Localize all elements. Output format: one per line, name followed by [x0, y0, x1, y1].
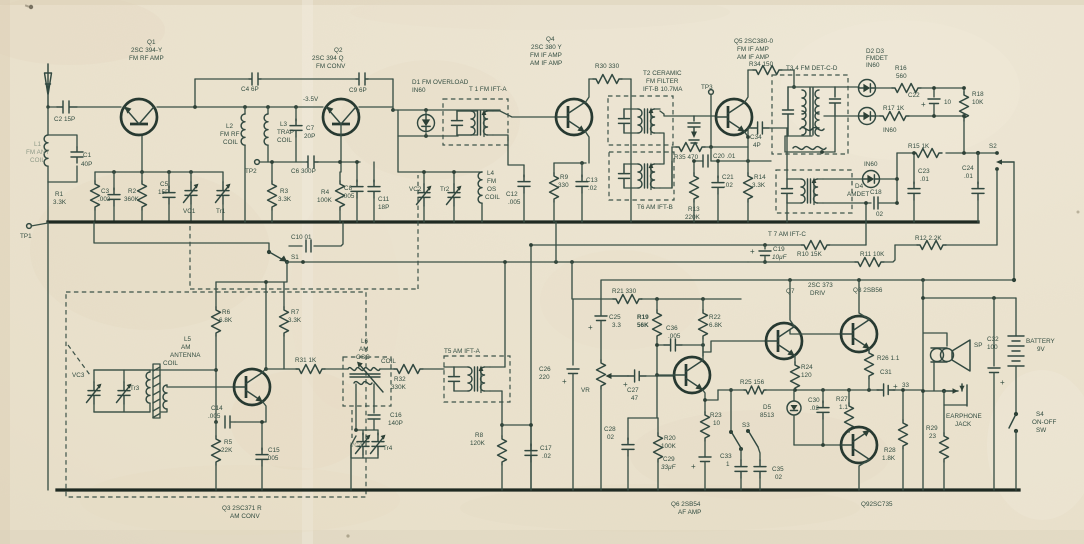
capacitor C9 — [356, 73, 368, 85]
wire Q6 collector to Q7 base — [703, 341, 766, 356]
svg-text:560: 560 — [896, 73, 907, 80]
capacitor C34 — [748, 122, 788, 137]
capacitor C15 — [256, 422, 268, 490]
transistor Q9 output (flipped) — [841, 427, 877, 463]
riser bus to rail x=556 — [555, 222, 557, 262]
resistor R3 — [268, 162, 277, 222]
T5 AM IFT-A dashed box — [444, 356, 510, 402]
wire Q2 right to riser x=393 — [359, 106, 393, 108]
svg-text:+: + — [921, 100, 926, 109]
resistor R18 — [960, 86, 969, 153]
svg-text:.005: .005 — [508, 199, 521, 206]
wire Q7 collector up — [790, 280, 795, 327]
wire TP2 rail y=162 — [260, 161, 360, 163]
svg-text:.005: .005 — [342, 193, 355, 200]
svg-text:D2 D3: D2 D3 — [866, 48, 885, 55]
svg-text:.02: .02 — [724, 182, 733, 189]
resistor R21 — [613, 295, 642, 304]
svg-text:R10 15K: R10 15K — [797, 251, 823, 258]
svg-text:8513: 8513 — [760, 412, 775, 419]
wire R35 rail y=147 — [672, 146, 748, 148]
svg-text:FM RF AMP: FM RF AMP — [129, 55, 164, 62]
resistor R8 — [498, 436, 507, 490]
svg-text:R14: R14 — [754, 174, 766, 181]
wire B- feed y=243 — [94, 222, 269, 251]
svg-text:T5 AM IFT-A: T5 AM IFT-A — [444, 348, 481, 355]
capacitor C4 — [249, 73, 261, 85]
svg-text:Q92SC735: Q92SC735 — [861, 501, 893, 508]
resistor R13 — [690, 161, 699, 222]
wire antenna to C2 — [48, 105, 57, 107]
svg-text:220K: 220K — [685, 214, 701, 221]
diode D5 bias — [787, 390, 801, 445]
svg-text:C25: C25 — [609, 314, 621, 321]
svg-text:.005: .005 — [668, 333, 681, 340]
riser rail to audio x=572 — [571, 262, 573, 299]
test point TP2 — [255, 160, 260, 165]
svg-text:D5: D5 — [763, 404, 772, 411]
svg-text:IFT-B 10.7MA: IFT-B 10.7MA — [643, 86, 683, 93]
transistor Q5 — [716, 99, 752, 135]
svg-text:R2: R2 — [128, 188, 137, 195]
capacitor C14 — [225, 416, 235, 428]
svg-text:.002: .002 — [98, 196, 111, 203]
svg-text:D1 FM OVERLOAD: D1 FM OVERLOAD — [412, 79, 469, 86]
svg-text:.02: .02 — [810, 405, 819, 412]
svg-text:2SC 373: 2SC 373 — [808, 282, 833, 289]
diode D1 FM overload — [418, 110, 435, 136]
resistor R16 — [892, 84, 964, 93]
svg-text:OS: OS — [487, 186, 496, 193]
svg-text:L1: L1 — [34, 141, 42, 148]
capacitor C27 electrolytic — [628, 370, 674, 382]
svg-text:SP: SP — [974, 342, 983, 349]
variable capacitor VC1 — [184, 172, 199, 222]
resistor R11 — [855, 245, 895, 267]
transformer T7 — [782, 178, 824, 205]
svg-text:360K: 360K — [124, 196, 140, 203]
top rail segment to R30 and T2 — [589, 78, 631, 80]
transformer T6 — [619, 163, 661, 190]
capacitor C31 electrolytic output — [877, 384, 895, 396]
wire audio B+ rail y=299 — [573, 298, 741, 300]
trimmer Tr1 — [216, 172, 231, 222]
svg-text:Q1: Q1 — [147, 39, 156, 46]
wire x=672 link — [671, 147, 673, 188]
svg-text:220: 220 — [539, 374, 550, 381]
wire T7 sec bottom to C18 — [823, 202, 871, 204]
wire AVC rail y=248 — [531, 244, 866, 246]
wire S2 lower contact to R12 rail — [996, 171, 998, 245]
svg-text:R3: R3 — [280, 188, 289, 195]
wire speaker to jack — [933, 361, 935, 391]
svg-text:10: 10 — [713, 420, 721, 427]
wire emitter node to S3 — [730, 390, 732, 432]
diode D2 FM det — [859, 80, 876, 97]
svg-text:18P: 18P — [378, 204, 389, 211]
svg-text:FM CONV: FM CONV — [316, 63, 346, 70]
wire D3 to R17 — [876, 115, 880, 117]
resistor R9 — [550, 163, 559, 222]
svg-text:AF AMP: AF AMP — [678, 509, 701, 516]
svg-text:COIL: COIL — [277, 137, 292, 144]
resistor R4 — [336, 172, 345, 222]
trimmer Tr2 — [447, 172, 462, 222]
node junction at antenna/L1 — [46, 105, 49, 108]
wire Q4 emitter down to R9/C13 rail — [554, 131, 589, 163]
svg-text:C35: C35 — [772, 466, 784, 473]
wire left leg x=398 — [397, 110, 399, 172]
svg-text:R15 1K: R15 1K — [908, 143, 930, 150]
wire Q3 collector up — [263, 282, 267, 373]
svg-text:FM ANT: FM ANT — [26, 149, 49, 156]
svg-text:4P: 4P — [753, 142, 761, 149]
svg-text:S3: S3 — [742, 422, 750, 429]
capacitor C25 electrolytic — [595, 316, 607, 360]
wire y=107 Q1 to L2/L3/Q2 — [195, 106, 323, 108]
resistor R26 — [865, 350, 874, 390]
svg-text:.01: .01 — [964, 173, 973, 180]
wire battery top rail y=298 — [923, 297, 1016, 299]
T4 bottom wire — [785, 116, 835, 152]
svg-text:TP2: TP2 — [245, 168, 257, 175]
transistor Q8 output — [841, 316, 877, 352]
svg-text:C22: C22 — [908, 92, 920, 99]
svg-text:AM IF AMP: AM IF AMP — [530, 60, 562, 67]
resistor R7 — [280, 282, 289, 369]
wire VC2 rail y=172 — [398, 171, 482, 173]
capacitor C20 — [703, 155, 708, 167]
top rail y=79 with gaps for C4 C9 — [195, 78, 393, 80]
svg-text:Q3 2SC371 R: Q3 2SC371 R — [222, 505, 262, 512]
svg-text:COIL: COIL — [223, 139, 238, 146]
wire Q7 emitter down to R24 — [794, 356, 797, 363]
T4 lower winding s-curve — [800, 128, 824, 131]
emitter rail wire y=172 — [95, 171, 223, 173]
svg-text:C33: C33 — [720, 453, 732, 460]
transformer T3 right cap — [830, 87, 841, 116]
svg-text:R30 330: R30 330 — [595, 63, 620, 70]
wire T2 sec bottom to T6 sec top — [660, 133, 664, 164]
svg-text:R12 2.2K: R12 2.2K — [915, 235, 942, 242]
switch S1 — [267, 250, 289, 264]
resistor R34 — [748, 66, 794, 75]
svg-text:02: 02 — [775, 474, 783, 481]
ferrite antenna L5 — [94, 364, 160, 418]
test point TP3 — [709, 90, 714, 147]
svg-text:23: 23 — [929, 433, 937, 440]
svg-text:ON-OFF: ON-OFF — [1032, 419, 1057, 426]
wire Q9 emitter up — [848, 430, 850, 432]
svg-text:C18: C18 — [870, 189, 882, 196]
svg-text:33μF: 33μF — [661, 464, 677, 471]
transistor Q7 driver — [766, 323, 802, 359]
ceramic filter element — [688, 116, 700, 143]
resistor R2 — [138, 172, 147, 222]
wire C2 to Q1 — [77, 106, 121, 108]
svg-text:R31 1K: R31 1K — [295, 357, 317, 364]
svg-text:L2: L2 — [226, 123, 234, 130]
resistor R30 — [593, 75, 622, 84]
svg-text:C1: C1 — [83, 152, 92, 159]
svg-text:Q5 2SC380-0: Q5 2SC380-0 — [734, 38, 774, 45]
svg-text:20P: 20P — [304, 133, 315, 140]
svg-text:10: 10 — [944, 99, 952, 106]
svg-text:VC2: VC2 — [409, 186, 422, 193]
transistor Q4 — [556, 99, 592, 135]
wire Q6 base node — [657, 374, 674, 376]
svg-text:C4 6P: C4 6P — [241, 86, 259, 93]
svg-text:T2 CERAMIC: T2 CERAMIC — [643, 70, 682, 77]
wire Q3 emitter down — [235, 402, 266, 423]
volume control VR — [597, 360, 629, 490]
resistor R31 — [296, 365, 325, 374]
transformer L6 interior — [343, 362, 391, 406]
junction dots VC2 rail — [422, 170, 426, 174]
svg-text:JACK: JACK — [955, 421, 972, 428]
svg-text:+: + — [588, 323, 593, 332]
trimmer Tr4 — [371, 430, 386, 458]
L6 AM OSC dashed box — [343, 357, 391, 406]
svg-text:C16: C16 — [390, 412, 402, 419]
svg-text:120: 120 — [801, 372, 812, 379]
svg-text:R16: R16 — [895, 65, 907, 72]
svg-text:Tr1: Tr1 — [216, 208, 226, 215]
resistor R12 — [917, 241, 946, 250]
svg-text:15P: 15P — [158, 189, 169, 196]
wire Q8 emitter to R26 — [868, 349, 871, 351]
svg-text:C20 .01: C20 .01 — [713, 153, 736, 160]
capacitor C10 — [306, 240, 311, 252]
wire VC3 loop top y=370 — [94, 369, 150, 371]
svg-text:VC1: VC1 — [183, 208, 196, 215]
capacitor C16 — [368, 406, 380, 430]
svg-text:ANTENNA: ANTENNA — [170, 352, 201, 359]
capacitor C1 — [71, 147, 83, 163]
switch S3 — [729, 429, 758, 451]
long vertical feed x=531 — [530, 245, 532, 490]
svg-text:R5: R5 — [224, 439, 233, 446]
wire Q5 emitter down — [745, 132, 749, 174]
wire D4 out — [880, 178, 897, 180]
wire S1 out rail y=262 — [287, 261, 748, 263]
resistor R14 — [744, 173, 753, 222]
svg-text:1.1: 1.1 — [839, 404, 848, 411]
svg-text:FMDET: FMDET — [866, 55, 888, 62]
capacitor C17 — [525, 425, 537, 490]
wire Q7 collector node to Q8 base — [790, 330, 841, 334]
svg-text:FM FILTER: FM FILTER — [646, 78, 679, 85]
long vertical left x=48 — [47, 222, 49, 490]
wire D4 node vertical — [896, 153, 898, 203]
wire S2 arm to output rail — [1013, 162, 1015, 280]
riser Q2 collector to top rail — [392, 79, 394, 110]
svg-text:C9 6P: C9 6P — [349, 87, 367, 94]
svg-text:S2: S2 — [989, 143, 997, 150]
capacitor C21 — [712, 161, 724, 222]
wire C10 branch y=246 — [289, 222, 343, 246]
wire speaker frame left — [923, 280, 947, 490]
capacitor C7 — [290, 107, 302, 162]
svg-text:DRIV: DRIV — [810, 290, 826, 297]
svg-text:140P: 140P — [388, 420, 403, 427]
T2 dashed box upper — [608, 96, 673, 145]
svg-text:.02: .02 — [542, 453, 551, 460]
vertical with C26 — [572, 299, 574, 365]
variable capacitor VC3 — [87, 370, 102, 412]
resistor R17 — [880, 112, 964, 121]
capacitor C12 — [518, 165, 530, 222]
wire Q1 collector to riser — [157, 106, 195, 108]
paper specks — [29, 5, 33, 9]
capacitor C29 electrolytic — [699, 457, 711, 490]
svg-text:C15: C15 — [268, 447, 280, 454]
wire R8 node to C17 — [502, 424, 531, 426]
svg-text:COIL: COIL — [381, 358, 396, 365]
svg-text:FM RF: FM RF — [220, 131, 240, 138]
svg-text:T 1 FM IFT-A: T 1 FM IFT-A — [469, 86, 507, 93]
svg-text:R24: R24 — [801, 364, 813, 371]
svg-text:T6 AM IFT-B: T6 AM IFT-B — [637, 204, 673, 211]
svg-text:VC3: VC3 — [72, 372, 85, 379]
T7 AM IFT-C dashed box — [776, 170, 852, 213]
svg-text:C19: C19 — [773, 246, 785, 253]
test point TP1 — [27, 223, 48, 228]
svg-text:.005: .005 — [208, 413, 221, 420]
svg-text:120K: 120K — [470, 440, 486, 447]
svg-text:3.3K: 3.3K — [752, 182, 766, 189]
gang dashed link VC4 — [351, 410, 353, 438]
resistor R10 in AVC rail — [801, 241, 830, 250]
svg-text:02: 02 — [876, 211, 884, 218]
variable capacitor VC2 — [417, 172, 432, 222]
svg-text:S4: S4 — [1036, 411, 1044, 418]
svg-text:C21: C21 — [722, 174, 734, 181]
svg-text:R20: R20 — [664, 435, 676, 442]
transformer T3 coil pair — [802, 88, 819, 136]
svg-text:COIL: COIL — [163, 360, 178, 367]
capacitor C3 — [108, 172, 120, 222]
svg-text:.01: .01 — [920, 176, 929, 183]
coil L2 FM RF — [241, 107, 245, 222]
svg-text:+: + — [623, 380, 628, 389]
svg-text:.02: .02 — [588, 185, 597, 192]
svg-text:Tr3: Tr3 — [130, 385, 140, 392]
svg-text:C13: C13 — [586, 177, 598, 184]
wire Q2 base down — [340, 124, 342, 172]
AM converter dashed box — [66, 292, 366, 497]
svg-text:R4: R4 — [321, 189, 330, 196]
resistor R6 — [212, 282, 221, 422]
svg-text:R7: R7 — [291, 309, 300, 316]
transistor Q6 — [674, 357, 710, 393]
wire T3 to D3 — [824, 115, 859, 117]
transistor Q1 — [121, 99, 157, 135]
svg-text:40P: 40P — [81, 161, 92, 168]
wire T6 sec bottom down — [660, 161, 672, 188]
svg-text:Tr4: Tr4 — [383, 445, 393, 452]
svg-text:FM: FM — [487, 178, 496, 185]
svg-text:Q6 2SB54: Q6 2SB54 — [671, 501, 701, 508]
svg-text:L3: L3 — [280, 121, 288, 128]
svg-text:C17: C17 — [540, 445, 552, 452]
wire R7 to R31 rail y=369 — [266, 368, 343, 370]
svg-text:47: 47 — [631, 395, 639, 402]
svg-text:.005: .005 — [266, 455, 279, 462]
svg-text:Tr2: Tr2 — [440, 186, 450, 193]
svg-text:R9: R9 — [560, 174, 569, 181]
label L1 FM ANT COIL — [26, 141, 49, 164]
svg-text:6.8K: 6.8K — [709, 322, 723, 329]
svg-text:C23: C23 — [918, 168, 930, 175]
svg-text:6.8K: 6.8K — [219, 317, 233, 324]
svg-text:R1: R1 — [55, 191, 64, 198]
svg-text:C34: C34 — [750, 134, 762, 141]
wire C20 rail y=161 — [694, 160, 771, 162]
svg-text:IN60: IN60 — [864, 161, 878, 168]
svg-text:C7: C7 — [306, 125, 315, 132]
svg-text:R32: R32 — [394, 376, 406, 383]
svg-text:SW: SW — [1036, 427, 1046, 434]
wire AGC low rail y=262 right portion — [748, 261, 855, 263]
speaker SP — [931, 340, 971, 371]
svg-text:R22: R22 — [709, 314, 721, 321]
capacitor C13 — [576, 163, 588, 222]
svg-text:D4: D4 — [855, 183, 864, 190]
svg-text:3.3K: 3.3K — [288, 317, 302, 324]
svg-text:330: 330 — [558, 182, 569, 189]
svg-text:3.3: 3.3 — [612, 322, 621, 329]
svg-text:R17 1K: R17 1K — [883, 105, 905, 112]
svg-text:FM IF AMP: FM IF AMP — [530, 52, 562, 59]
T6 dashed box lower — [609, 152, 674, 200]
capacitor C30 — [817, 390, 829, 445]
svg-text:C26: C26 — [539, 366, 551, 373]
svg-text:C2 15P: C2 15P — [54, 116, 75, 123]
svg-text:R23: R23 — [710, 412, 722, 419]
resistor R5 — [212, 422, 221, 490]
resistor R23 — [701, 412, 710, 457]
wire T2 feed left column — [630, 79, 632, 222]
T4 lower winding 2 — [793, 147, 826, 150]
wire D1 bottom rail y=136 — [398, 135, 458, 137]
svg-text:R26 1.1: R26 1.1 — [877, 355, 900, 362]
T1 FM IFT-A dashed box — [443, 99, 508, 145]
wire D2 to R16 — [876, 87, 892, 89]
svg-text:C10 01: C10 01 — [291, 234, 312, 241]
capacitor C18 — [874, 197, 897, 209]
svg-text:R6: R6 — [222, 309, 231, 316]
svg-text:COIL: COIL — [485, 194, 500, 201]
transformer T2 upper — [619, 108, 661, 135]
capacitor C11 — [368, 162, 380, 222]
svg-text:33: 33 — [902, 382, 910, 389]
svg-text:+: + — [562, 377, 567, 386]
svg-text:R27: R27 — [836, 396, 848, 403]
wire T2 sec top out to filter — [660, 111, 716, 116]
bus: main ground bus top — [48, 220, 978, 223]
svg-text:L4: L4 — [487, 170, 495, 177]
svg-text:10K: 10K — [972, 99, 984, 106]
svg-text:100: 100 — [987, 344, 998, 351]
svg-text:C14: C14 — [211, 405, 223, 412]
svg-text:AM CONV: AM CONV — [230, 513, 260, 520]
wire D1 top rail y=110 — [358, 109, 500, 111]
T3 bottom wire — [788, 135, 812, 137]
svg-text:AM: AM — [359, 346, 369, 353]
svg-text:C3: C3 — [101, 188, 110, 195]
svg-text:VR: VR — [581, 387, 590, 394]
